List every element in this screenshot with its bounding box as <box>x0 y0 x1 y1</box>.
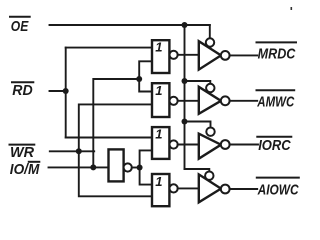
svg-text:1: 1 <box>155 83 162 98</box>
gate D1.4 (1) <box>152 174 169 206</box>
wire output AMWC <box>230 100 258 102</box>
node WR label <box>10 145 35 161</box>
svg-text:AIOWC: AIOWC <box>257 181 300 198</box>
speck artifact top right <box>291 7 293 10</box>
svg-text:1: 1 <box>155 127 162 142</box>
buffer D2.4 output bubble <box>221 185 230 194</box>
wire RD to gate D1.3 input A <box>66 137 152 139</box>
junction OE branch row2 <box>182 78 188 84</box>
wire WR horizontal <box>50 150 94 152</box>
buffer D2.4 triangle <box>199 174 221 202</box>
node OE label <box>11 19 30 35</box>
gate D1.1 (1) <box>152 40 169 73</box>
wire inverter output <box>132 167 140 169</box>
buffer D2.4 enable bubble <box>205 172 213 180</box>
node RD label <box>12 83 33 99</box>
wire OE horizontal <box>50 24 210 26</box>
buffer D2.1 triangle <box>199 41 221 69</box>
inverter D3 (IO/M) <box>109 149 124 181</box>
svg-text:AMWC: AMWC <box>257 94 296 111</box>
wire RD vertical trunk <box>65 48 67 138</box>
svg-text:IORC: IORC <box>258 137 292 154</box>
wire IO/M riser to feeder <box>93 79 139 167</box>
svg-text:1: 1 <box>155 174 162 189</box>
overline OE <box>10 16 30 18</box>
gate D1.2 (1) <box>152 83 169 117</box>
wire OE vertical trunk <box>184 25 186 169</box>
overline WR <box>10 144 35 146</box>
wire WR dropper to gate D1.4 input B <box>79 151 152 196</box>
wire WR riser to gate D1.2 input B <box>79 104 152 151</box>
wire OE enable drop to buffer D2.1 <box>209 25 211 39</box>
buffer D2.3 output bubble <box>221 140 230 149</box>
buffer D2.1 enable bubble <box>206 38 214 46</box>
node AIOWC label <box>257 181 300 198</box>
wire output IORC <box>230 144 258 146</box>
buffer D2.2 enable bubble <box>206 84 214 92</box>
gate D1.3 (1) <box>152 127 169 159</box>
svg-text:RD: RD <box>12 83 33 99</box>
wire output AIOWC <box>230 188 258 190</box>
wire OE branch to buffer D2.4 <box>185 169 210 172</box>
overline AIOWC <box>257 177 299 179</box>
overline RD <box>12 81 33 83</box>
wire RD to gate D1.1 input A <box>66 47 152 49</box>
junction inverted IO/M <box>137 165 143 171</box>
gate D1.2 output bubble <box>170 97 178 105</box>
svg-text:OE: OE <box>11 19 30 35</box>
wire OE branch to buffer D2.3 <box>185 122 211 128</box>
wire gate D1.4 to buffer D2.4 <box>178 187 199 189</box>
node IORC label <box>258 137 292 154</box>
wire IO/M to gate D1.1 input B <box>139 61 152 79</box>
gate D1.3 output bubble <box>170 140 178 148</box>
wire inv IO/M to gate D1.4 input A <box>140 168 152 185</box>
node IO/M label <box>10 162 40 178</box>
junction IO/M <box>90 164 96 170</box>
gate D1.1 output bubble <box>170 51 178 59</box>
svg-text:MRDC: MRDC <box>258 46 297 63</box>
wire gate D1.1 to buffer D2.1 <box>178 54 199 56</box>
wire IO/M horizontal <box>49 166 109 168</box>
junction IO/M feeder <box>136 76 142 82</box>
wire gate D1.2 to buffer D2.2 <box>178 100 199 102</box>
buffer D2.3 enable bubble <box>206 128 214 136</box>
wire RD horizontal <box>50 90 66 92</box>
wire IO/M to gate D1.2 input A <box>139 79 152 92</box>
overline M of IO/M <box>29 161 40 163</box>
wire gate D1.3 to buffer D2.3 <box>178 144 199 146</box>
junction OE trunk top <box>182 22 188 28</box>
overline AMWC <box>257 89 295 91</box>
buffer D2.1 output bubble <box>221 51 230 60</box>
wire inv IO/M to gate D1.3 input B <box>140 150 152 167</box>
overline IORC <box>257 136 291 138</box>
overline MRDC <box>257 41 297 43</box>
gate D1.4 output bubble <box>170 184 178 192</box>
svg-text:WR: WR <box>10 145 35 161</box>
junction RD <box>63 88 69 94</box>
wire output MRDC <box>230 54 258 56</box>
buffer D2.2 triangle <box>199 87 221 114</box>
node AMWC label <box>257 94 296 111</box>
svg-text:1: 1 <box>155 40 162 55</box>
inverter D3 output bubble <box>124 163 132 171</box>
buffer D2.2 output bubble <box>221 96 230 105</box>
junction OE branch row3 <box>182 119 188 125</box>
svg-text:IO/M: IO/M <box>10 162 40 178</box>
junction WR <box>76 148 82 154</box>
wire OE branch to buffer D2.2 <box>185 81 211 84</box>
node MRDC label <box>258 46 297 63</box>
buffer D2.3 triangle <box>199 134 221 159</box>
